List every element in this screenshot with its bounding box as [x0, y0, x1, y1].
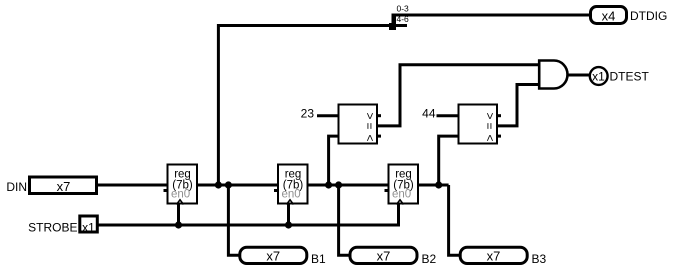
svg-text:B2: B2 — [422, 252, 437, 266]
svg-text:<: < — [363, 134, 377, 141]
input port DIN — [6, 177, 96, 194]
svg-text:x1: x1 — [82, 220, 95, 234]
wire drop from bus to B1 port — [228, 185, 239, 255]
wire vertical riser from bus up to bit tap — [218, 26, 407, 186]
svg-text:x7: x7 — [266, 248, 280, 263]
wire comparator U4 B input from bus — [329, 136, 338, 185]
output port B1 — [240, 247, 326, 265]
register U3 reg(7b) — [385, 165, 419, 205]
wire AND gate output to DTEST port — [568, 74, 589, 77]
output port DTEST — [590, 67, 650, 85]
bus tap splitter bar — [392, 14, 397, 30]
wire main bus reg1 output to reg2 input — [198, 184, 278, 187]
wire drop from bus to B2 port — [339, 185, 349, 255]
wire bit tap 0-3 to DTDIG port — [394, 14, 590, 17]
wire 23 constant to comparator U4 A input — [317, 114, 338, 117]
wire reg2 clock from STROBE net — [287, 204, 290, 225]
register U2 reg(7b) — [274, 165, 308, 205]
wire DIN to reg1 data input — [97, 184, 167, 187]
wire drop from bus to B3 port — [449, 185, 459, 255]
svg-text:B3: B3 — [532, 252, 547, 266]
wire 44 constant to comparator U5 A input — [437, 114, 459, 117]
svg-text:x7: x7 — [57, 179, 71, 194]
comparator U4 — [339, 105, 382, 144]
svg-text:en0: en0 — [171, 188, 190, 200]
output port DTDIG — [591, 7, 668, 24]
junction dot bus at B2 drop — [335, 181, 342, 188]
svg-text:STROBE: STROBE — [28, 221, 77, 235]
junction dot bus at B1 drop — [225, 181, 232, 188]
wire comparator U4 eq output to AND gate top input — [378, 65, 538, 126]
svg-text:x7: x7 — [377, 248, 391, 263]
wire comparator U5 eq output to AND gate bottom input — [498, 85, 538, 126]
junction dot STROBE at reg1 clock — [175, 221, 182, 228]
svg-text:en0: en0 — [282, 188, 301, 200]
AND gate U6 — [539, 61, 567, 89]
svg-text:4-6: 4-6 — [397, 14, 410, 24]
wire main bus reg2 output to reg3 input — [308, 184, 389, 187]
wire reg1 clock from STROBE net — [177, 204, 180, 225]
junction dot bus at comparator U5 input — [435, 181, 442, 188]
svg-text:DIN: DIN — [6, 180, 27, 194]
svg-text:44: 44 — [422, 107, 436, 121]
svg-text:=: = — [483, 122, 497, 129]
svg-text:en0: en0 — [392, 188, 411, 200]
junction dot bus at comparator U4 input — [325, 181, 332, 188]
svg-text:x7: x7 — [487, 248, 501, 263]
svg-text:x1: x1 — [592, 69, 605, 83]
output port B3 — [460, 247, 546, 265]
junction dot bus at riser — [215, 181, 222, 188]
wire STROBE net to register clocks — [98, 204, 399, 225]
svg-text:0-3: 0-3 — [397, 4, 410, 14]
register U1 reg(7b) — [164, 165, 198, 205]
svg-text:=: = — [363, 122, 377, 129]
svg-text:x4: x4 — [602, 8, 616, 23]
junction dot STROBE at reg2 clock — [285, 221, 292, 228]
svg-text:23: 23 — [301, 107, 315, 121]
svg-text:DTEST: DTEST — [610, 70, 650, 84]
input port STROBE — [28, 216, 97, 235]
svg-text:DTDIG: DTDIG — [630, 9, 667, 23]
svg-text:>: > — [363, 112, 377, 119]
svg-text:B1: B1 — [311, 252, 326, 266]
wire reg3 output to B3 drop elbow — [418, 184, 449, 187]
svg-text:>: > — [483, 112, 497, 119]
wire comparator U5 B input from bus — [439, 136, 458, 185]
svg-text:<: < — [483, 134, 497, 141]
comparator U5 — [459, 105, 502, 144]
output port B2 — [350, 247, 437, 265]
